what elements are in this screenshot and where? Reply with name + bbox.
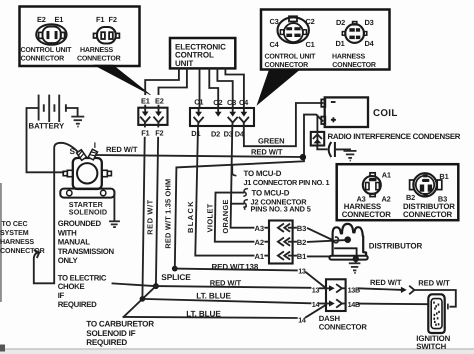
pin C1 arrow (194, 108, 203, 123)
wire B1 to cap base (308, 255, 330, 257)
coil terminal + bump (321, 117, 325, 124)
callout box E/F connectors (20, 7, 140, 67)
svg-text:RADIO INTERFERENCE CONDENSER: RADIO INTERFERENCE CONDENSER (328, 132, 461, 141)
svg-text:C2: C2 (213, 98, 222, 107)
wire B3 to distributor rotor hook (308, 228, 333, 240)
svg-text:A1: A1 (255, 252, 265, 261)
ground (solenoid) (109, 221, 120, 227)
svg-text:SWITCH: SWITCH (416, 342, 446, 351)
svg-text:CONNECTOR: CONNECTOR (77, 56, 121, 63)
coil terminal - bump (321, 99, 325, 106)
wire coil + down to node and J1 stub across (175, 115, 323, 269)
svg-text:F2: F2 (155, 128, 163, 137)
control unit connector glyph (oval, 2 slots) (36, 24, 66, 45)
svg-text:BATTERY: BATTERY (29, 121, 65, 130)
wire I terminal to coil + node (RED W/T) (96, 155, 303, 157)
J2 pigtail hook upper (243, 189, 248, 197)
svg-text:A2: A2 (255, 238, 264, 247)
svg-text:BLACK: BLACK (186, 200, 195, 233)
pin 13 arrows (326, 285, 346, 292)
svg-text:PINS NO. 3 AND 5: PINS NO. 3 AND 5 (251, 205, 311, 214)
wire violet from J2 pin to A2 (215, 193, 254, 242)
wire D4 (down then right, GREEN, to coil -) (244, 103, 323, 146)
distributor cap (333, 224, 367, 256)
wire orange branch to J2 pin (231, 203, 244, 205)
svg-text:C1: C1 (306, 40, 315, 49)
pin A1-B1 (265, 252, 296, 259)
node F1/LT.BLUE junction (140, 296, 146, 302)
svg-text:HARNESS: HARNESS (0, 238, 34, 246)
pin C2 arrow (no lower pin) (215, 108, 222, 117)
svg-text:RED W/T: RED W/T (146, 199, 155, 235)
connector block E1 E2 / F1 F2 (138, 108, 167, 125)
svg-text:IF: IF (58, 291, 65, 300)
ECU box U1 (170, 38, 235, 68)
dash connector block (326, 279, 346, 311)
svg-text:DISTRIBUTOR: DISTRIBUTOR (369, 241, 423, 250)
svg-text:A3: A3 (255, 224, 264, 233)
svg-text:COIL: COIL (373, 108, 398, 119)
harness connector glyph (small oval, 2 slots) (94, 27, 120, 44)
svg-text:TRANSMISSION: TRANSMISSION (58, 247, 115, 256)
terminal I screw (88, 149, 97, 160)
wire battery negative to ground (66, 108, 78, 116)
svg-text:CHOKE: CHOKE (58, 282, 85, 291)
bracket ear left (67, 190, 72, 195)
wire 14 diagonal into dash (306, 305, 326, 317)
svg-text:CONNECTOR: CONNECTOR (21, 56, 65, 63)
B3 hook in cap (333, 237, 339, 243)
svg-text:B1: B1 (297, 252, 307, 261)
svg-text:D3: D3 (365, 18, 374, 27)
scan border bottom (0, 349, 474, 354)
svg-text:D2: D2 (211, 129, 220, 138)
svg-text:D3: D3 (224, 129, 233, 138)
starter solenoid body (73, 158, 102, 189)
svg-text:D4: D4 (365, 39, 375, 48)
svg-text:SOLENOID IF: SOLENOID IF (86, 329, 135, 338)
svg-text:TO CEC: TO CEC (2, 220, 28, 228)
wire LT. BLUE (carburetor) to dash 14 diagonal (124, 317, 297, 318)
svg-text:C3: C3 (270, 17, 279, 26)
svg-text:CONNECTOR: CONNECTOR (319, 322, 368, 331)
distributor base (329, 256, 367, 260)
svg-text:UNIT: UNIT (175, 59, 193, 68)
svg-text:SOLENOID: SOLENOID (69, 207, 107, 216)
solenoid right bolt (102, 170, 112, 176)
svg-text:GROUNDED: GROUNDED (58, 219, 102, 228)
svg-text:RED W/T: RED W/T (251, 147, 283, 156)
svg-text:F1: F1 (96, 15, 104, 24)
node coil+/J1 junction (300, 154, 306, 160)
callout wedge to C/D block (257, 70, 301, 106)
solenoid left bolt (63, 170, 73, 176)
rotor contact blob (344, 236, 351, 243)
svg-text:RED W/T 1.35 OHM: RED W/T 1.35 OHM (164, 179, 173, 249)
capacitor plates (329, 142, 332, 157)
svg-text:B2: B2 (406, 193, 415, 202)
svg-text:RED W/T: RED W/T (210, 279, 242, 288)
svg-text:A1: A1 (382, 170, 391, 179)
J1 pigtail hook (232, 165, 236, 176)
svg-text:E2: E2 (37, 15, 46, 24)
ground (condenser) (344, 151, 357, 161)
svg-text:LT. BLUE: LT. BLUE (186, 309, 221, 318)
node distributor ground (353, 256, 359, 262)
svg-text:13: 13 (312, 285, 320, 294)
svg-text:RED W/T: RED W/T (418, 278, 450, 287)
svg-text:14: 14 (312, 300, 320, 309)
coil (325, 97, 368, 127)
svg-text:REQUIRED: REQUIRED (86, 338, 127, 347)
wire to distributor ground (355, 259, 357, 263)
wire F2 (down from block to splice, RED W/T) (156, 123, 159, 287)
wire ECU to E2 (159, 68, 187, 107)
harness connector glyph (4-pin square) (342, 22, 367, 43)
control unit connector glyph (4-pin oval) (278, 16, 309, 43)
node 1.35 ohm splice (172, 266, 178, 272)
wire battery positive to starter solenoid (27, 108, 64, 172)
connector block A/B (269, 221, 293, 264)
svg-text:I: I (94, 141, 96, 150)
wire LT. BLUE to dash 14 (142, 299, 310, 303)
svg-text:B2: B2 (297, 238, 306, 247)
svg-text:CONNECTOR: CONNECTOR (342, 210, 392, 219)
svg-text:LT. BLUE: LT. BLUE (196, 292, 231, 301)
svg-text:HARNESS: HARNESS (332, 53, 366, 60)
svg-text:14B: 14B (348, 300, 360, 309)
wire electric choke to splice (113, 283, 154, 286)
wire 13 diagonal into dash (306, 272, 326, 288)
svg-text:13: 13 (298, 266, 306, 275)
wire RED W/T 138 to dash 13 diagonal (175, 269, 297, 271)
pin E2 arrow (154, 108, 163, 123)
svg-text:13B: 13B (348, 285, 360, 294)
pin 14 arrows (326, 300, 346, 307)
svg-text:TO MCU-D: TO MCU-D (252, 188, 290, 197)
svg-text:RED W/T138: RED W/T138 (212, 262, 259, 271)
distributor connector glyph (3-pin round big) (410, 173, 442, 196)
callout box C/D connectors (261, 10, 390, 70)
connector block C1-C4 / D1-D4 (190, 108, 254, 126)
wire ECU to C2 (209, 68, 218, 108)
wire + junction to condenser (316, 116, 318, 132)
svg-text:TO CARBURETOR: TO CARBURETOR (86, 319, 154, 328)
svg-text:CONTROL UNIT: CONTROL UNIT (265, 53, 317, 60)
ground (battery) (71, 117, 84, 127)
solenoid core circle (77, 163, 97, 183)
ignition switch body (428, 294, 444, 333)
svg-text:ONLY: ONLY (58, 256, 79, 265)
svg-text:CONNECTOR: CONNECTOR (403, 210, 453, 219)
svg-text:C3: C3 (227, 98, 236, 107)
svg-text:MANUAL: MANUAL (58, 238, 91, 247)
wire D3 (down, becomes ORANGE, to A3) (231, 123, 254, 228)
wire splice diagonal to carburetor tap (124, 286, 156, 317)
svg-text:J1 CONNECTOR PIN NO. 1: J1 CONNECTOR PIN NO. 1 (244, 178, 330, 187)
svg-text:HARNESS: HARNESS (80, 47, 114, 54)
J2 pigtail hook lower (243, 200, 248, 210)
svg-text:D1: D1 (336, 39, 345, 48)
svg-text:D4: D4 (235, 129, 245, 138)
svg-text:D2: D2 (336, 18, 345, 27)
svg-text:CONNECTOR: CONNECTOR (265, 62, 309, 69)
wire splice to dash 13 (RED W/T) (156, 286, 311, 288)
wire condenser to capacitor (317, 146, 326, 150)
wire S terminal to CEC harness (34, 143, 78, 283)
svg-text:F2: F2 (109, 15, 117, 24)
svg-text:F1: F1 (141, 128, 149, 137)
svg-text:14: 14 (298, 315, 306, 324)
pin C4 arrow (240, 108, 249, 123)
svg-text:C1: C1 (194, 98, 203, 107)
wire ECU to C4 (225, 68, 244, 108)
pin A3-B3 (265, 224, 296, 231)
wire F1 (down from block, becomes LT. BLUE) (142, 123, 145, 299)
svg-text:RED W/T: RED W/T (370, 278, 402, 287)
svg-text:CONTROL UNIT: CONTROL UNIT (21, 47, 73, 54)
wire D1 (down, becomes BLACK, to A1) (195, 123, 253, 256)
wire bracket to ground (113, 192, 115, 221)
inline connector tick (447, 304, 449, 310)
arrow to CEC connector (35, 250, 40, 257)
wire capacitor to ground (335, 149, 350, 150)
svg-text:REQUIRED: REQUIRED (58, 300, 97, 309)
svg-text:SPLICE: SPLICE (161, 272, 191, 282)
svg-text:WITH: WITH (58, 228, 77, 237)
svg-text:CONNECTOR: CONNECTOR (332, 62, 376, 69)
svg-text:C4: C4 (270, 40, 280, 49)
pin A2-B2 (265, 238, 296, 245)
callout wedge to E block (93, 65, 153, 97)
svg-text:E1: E1 (141, 97, 150, 106)
solenoid mounting bracket (60, 189, 114, 198)
wire ECU to C1 (199, 68, 201, 108)
pin C3 arrow (228, 108, 237, 123)
wire ECU to C3 (217, 68, 232, 108)
ignition switch inner (431, 299, 442, 329)
bracket ear right (101, 190, 106, 195)
svg-text:CONNECTOR: CONNECTOR (0, 247, 45, 255)
svg-text:C4: C4 (239, 98, 249, 107)
svg-text:TO ELECTRIC: TO ELECTRIC (58, 273, 107, 282)
condenser C1 box (311, 132, 324, 146)
svg-text:VIOLET: VIOLET (205, 203, 214, 232)
wire B2 to rotor contact (308, 240, 345, 242)
wire 14B to ignition switch (359, 303, 429, 306)
svg-text:E1: E1 (55, 15, 64, 24)
wire 13B RED W/T with inline connector (359, 288, 402, 290)
svg-text:GREEN: GREEN (258, 136, 285, 145)
svg-text:SYSTEM: SYSTEM (0, 229, 29, 237)
battery BT1 (39, 95, 66, 122)
svg-text:E2: E2 (155, 97, 164, 106)
label - (331, 101, 336, 103)
wire ECU to E1 (145, 68, 179, 107)
scan edge artifact left (0, 183, 2, 302)
ground (distributor) (349, 263, 361, 273)
connector box A/B (337, 164, 459, 220)
harness connector glyph (3-pin round) (363, 173, 381, 197)
svg-text:D1: D1 (191, 129, 200, 138)
svg-text:B3: B3 (297, 224, 306, 233)
svg-text:A2: A2 (382, 195, 391, 204)
terminal S screw (77, 150, 87, 161)
pin E1 arrow (141, 108, 150, 123)
node splice (153, 283, 159, 289)
svg-text:ORANGE: ORANGE (221, 199, 230, 233)
svg-text:TO MCU-D: TO MCU-D (244, 169, 282, 178)
label + (331, 117, 336, 122)
svg-text:RED W/T: RED W/T (106, 145, 138, 154)
